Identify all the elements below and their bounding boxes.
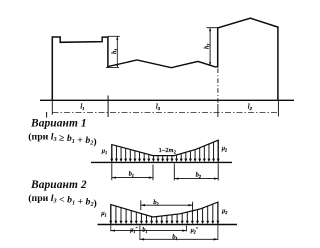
svg-text:Вариант 1: Вариант 1 — [30, 117, 87, 129]
svg-text:1–2m2: 1–2m2 — [159, 147, 177, 154]
svg-text:Вариант 2: Вариант 2 — [30, 179, 87, 191]
